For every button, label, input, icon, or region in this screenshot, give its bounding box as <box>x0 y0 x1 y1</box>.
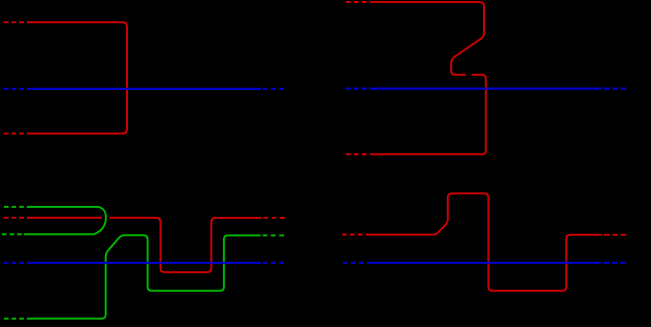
wire blue baseline panel 4 dashed tail <box>604 262 626 264</box>
wire green B bottom rail dashed lead <box>4 318 27 320</box>
wire blue baseline panel 2 solid <box>369 87 602 89</box>
wire red bottom rail dashed lead <box>4 133 27 135</box>
wire red rail dashed tail <box>263 217 287 219</box>
wire green A bracket <box>24 207 106 234</box>
wire red bottom rail dashed lead <box>346 153 371 155</box>
wire green A bottom rail dashed lead <box>2 233 24 235</box>
wire blue baseline panel 3 solid <box>27 262 261 264</box>
wire blue baseline panel 1 solid <box>27 88 261 90</box>
wire green B rail dashed tail <box>263 234 288 236</box>
wire blue baseline panel 3 dashed lead <box>4 262 27 264</box>
wire red low pulse <box>110 218 262 272</box>
wire blue baseline panel 4 dashed lead <box>343 262 372 264</box>
wire blue baseline panel 2 dashed lead <box>346 87 369 89</box>
wire red rail dashed lead <box>342 234 368 236</box>
wire red upper subpath with notch <box>371 2 484 75</box>
wire red top rail dashed lead <box>4 21 27 23</box>
wire blue baseline panel 4 solid <box>372 262 601 264</box>
wire green B trace <box>27 235 261 318</box>
wire red rail dashed tail <box>604 234 626 236</box>
wire blue baseline panel 1 dashed lead <box>4 88 27 90</box>
wire red rail left segment <box>27 217 102 219</box>
wire blue baseline panel 1 dashed tail <box>263 88 285 90</box>
wire red trace <box>368 193 602 290</box>
wire red top rail dashed lead <box>346 1 371 3</box>
wire red rail dashed lead <box>4 217 27 219</box>
wire blue baseline panel 2 dashed tail <box>604 87 626 89</box>
wire red bracket solid <box>27 22 127 133</box>
wire blue baseline panel 3 dashed tail <box>263 262 285 264</box>
wire green A top rail dashed lead <box>4 206 27 208</box>
wire red lower subpath <box>371 75 486 155</box>
